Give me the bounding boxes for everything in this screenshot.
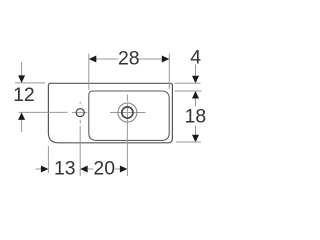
dimension 4: down arrow above [195,65,197,78]
dimension 4: extension line upper (basin top) [175,82,201,84]
svg-text:18: 18 [185,106,207,128]
dimension 28: left arrowhead [89,56,97,63]
svg-text:12: 12 [13,84,35,106]
svg-text:4: 4 [190,47,201,69]
dimension 12: extension line bottom (tap centerline) [18,111,67,113]
dimension 18: lower line and down arrow [195,126,197,136]
drain inner circle [122,107,133,118]
dimension 20: right arrowhead pointing right [115,168,121,170]
dimension 4: extension line lower (bowl top) [175,90,202,92]
dimension 28: extension line right [168,54,170,90]
dimension 28: extension line left [88,54,90,90]
bowl inner outline [89,91,169,140]
tap hole centerline vertical (dashed) [79,102,81,176]
tap hole centerline horizontal [72,112,87,114]
dimension 28: dimension line with arrows [96,58,163,60]
dimension 13/20: extension line left (basin left edge) [47,146,49,173]
dimension 18: extension line bottom (basin bottom) [176,141,201,143]
dimension 12: up arrow [18,112,25,120]
basin outer outline [48,83,172,143]
drain outer circle [118,103,137,122]
svg-text:28: 28 [118,47,140,69]
dimension 18: up arrow at bowl-top line [192,91,199,99]
drain centerline horizontal [110,112,146,114]
tap hole circle [76,109,84,117]
drain centerline vertical [126,95,128,177]
dimension 28: right arrowhead [162,56,170,63]
dimension 13: outside arrow pointing right [36,168,43,170]
dimension 20: left arrowhead pointing left [80,166,88,173]
svg-text:20: 20 [93,158,115,180]
svg-text:13: 13 [54,158,76,180]
dimension 12: down arrow [21,62,23,77]
dimension 12: extension line top [15,82,45,84]
